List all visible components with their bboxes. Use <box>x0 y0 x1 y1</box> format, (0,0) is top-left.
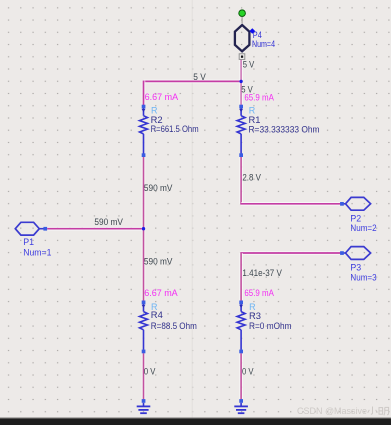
junction 590mV node <box>142 227 145 230</box>
resistor R1 symbol <box>237 105 245 157</box>
svg-text:P1: P1 <box>23 237 34 248</box>
port P1 pin terminal <box>43 227 47 231</box>
wire R4 bottom to ground <box>142 353 146 399</box>
wire left branch top vertical (5V node to R2) <box>142 81 146 105</box>
wire P3 corner down to R3 top <box>239 253 243 301</box>
wire 590mV junction to R4 top <box>142 229 146 301</box>
wire 5V junction to R1 top <box>239 81 243 105</box>
svg-text:Num=1: Num=1 <box>23 248 51 259</box>
svg-text:590 mV: 590 mV <box>94 217 123 228</box>
wire R3 bottom to ground <box>239 353 243 399</box>
svg-text:6.67 mA: 6.67 mA <box>145 92 179 103</box>
ground symbol left <box>137 399 151 413</box>
wire R2 bottom to 590mV junction <box>142 157 146 229</box>
svg-text:R4: R4 <box>151 310 163 321</box>
ground symbol right <box>234 399 248 413</box>
bottom window edge bar <box>0 417 391 425</box>
svg-text:R=88.5 Ohm: R=88.5 Ohm <box>151 321 197 332</box>
resistor R3 symbol <box>237 301 245 354</box>
svg-text:0 V: 0 V <box>144 366 156 377</box>
wire P1 to 590mV node <box>47 227 143 231</box>
svg-text:Num=2: Num=2 <box>350 223 376 234</box>
wire R1 bottom down to 2.8V corner <box>239 157 243 204</box>
svg-text:2.8 V: 2.8 V <box>242 172 261 183</box>
port P4 selection diamond <box>250 28 256 33</box>
port P4 node circle <box>239 10 246 23</box>
svg-text:5 V: 5 V <box>243 60 255 71</box>
wire 5V horizontal net from R2 branch to R1 branch <box>144 80 242 84</box>
svg-text:590 mV: 590 mV <box>144 183 173 194</box>
port P3 pin terminal <box>340 251 344 255</box>
svg-text:5 V: 5 V <box>193 72 206 83</box>
svg-text:65.9 mA: 65.9 mA <box>244 288 274 299</box>
svg-text:R=33.333333 Ohm: R=33.333333 Ohm <box>249 124 320 135</box>
svg-text:R=661.5 Ohm: R=661.5 Ohm <box>151 124 199 135</box>
port P4 pin 1 terminal <box>239 54 245 60</box>
svg-text:0 V: 0 V <box>242 366 254 377</box>
svg-text:Num=3: Num=3 <box>350 272 376 283</box>
port P1 symbol <box>15 222 43 235</box>
svg-text:Num=4: Num=4 <box>252 39 275 50</box>
resistor R2 symbol <box>140 105 148 157</box>
svg-text:6.67 mA: 6.67 mA <box>144 288 178 299</box>
resistor R4 symbol <box>140 301 148 354</box>
port P4 symbol <box>235 25 250 51</box>
svg-text:1.41e-37 V: 1.41e-37 V <box>242 268 282 279</box>
wire P4 stem to 5V junction <box>239 59 243 81</box>
watermark CSDN <box>297 406 389 417</box>
wire corner to P3 <box>240 251 341 255</box>
port P2 pin terminal <box>340 202 344 206</box>
port P3 symbol <box>342 247 371 260</box>
port P2 symbol <box>342 197 371 210</box>
svg-text:65.9 mA: 65.9 mA <box>244 93 274 104</box>
wire corner to P2 <box>240 202 341 206</box>
junction 5V node <box>239 80 242 83</box>
svg-text:CSDN @Massive: CSDN @Massive <box>297 406 367 417</box>
svg-text:590 mV: 590 mV <box>144 257 173 268</box>
svg-text:R=0 mOhm: R=0 mOhm <box>249 321 292 332</box>
